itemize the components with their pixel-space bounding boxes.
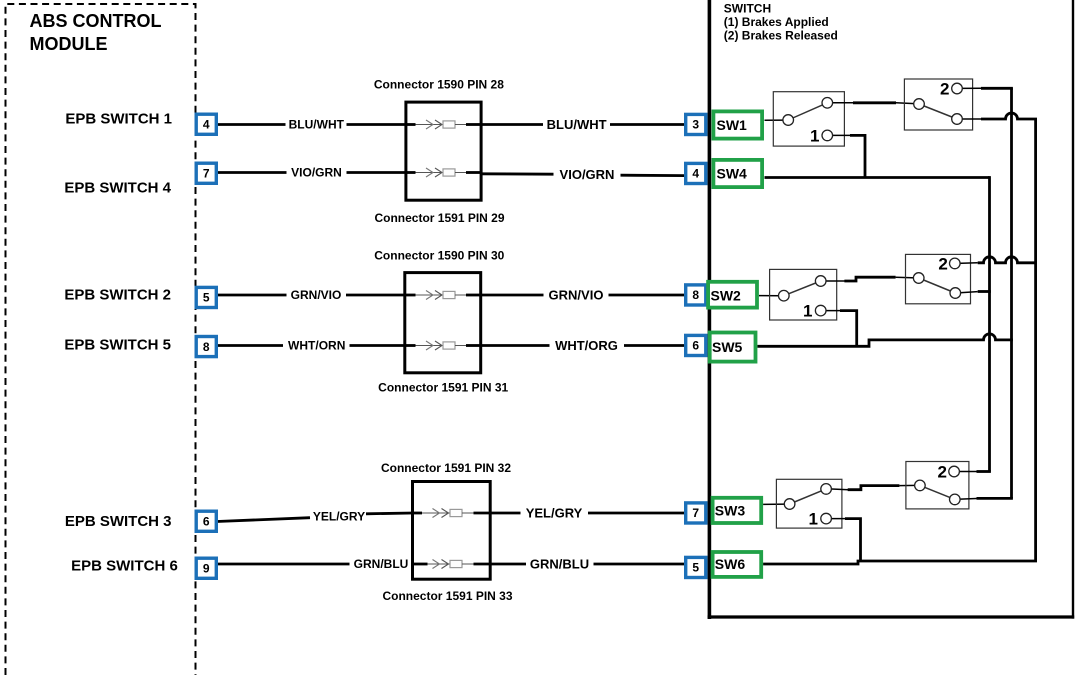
- pin 7 (ABS): [196, 163, 216, 183]
- pin 5 (SW6): [686, 557, 706, 577]
- wire S3b contact 2 to bus A: [957, 471, 991, 473]
- label EPB SWITCH 1: [65, 111, 172, 128]
- ABS CONTROL MODULE title: [30, 11, 162, 54]
- svg-text:Connector 1591 PIN 33: Connector 1591 PIN 33: [382, 589, 512, 603]
- svg-text:4: 4: [203, 118, 210, 132]
- wire label GRN/BLU (left): [354, 557, 409, 571]
- svg-text:SW6: SW6: [715, 556, 746, 572]
- ABS control module dashed box: [6, 4, 196, 675]
- label 1 (brakes applied contact): [809, 510, 818, 529]
- label EPB SWITCH 5: [64, 336, 171, 353]
- pin 5 (ABS): [196, 287, 216, 307]
- switch S3a blade: [790, 489, 827, 504]
- svg-text:YEL/GRY: YEL/GRY: [526, 506, 583, 521]
- label 1 (brakes applied contact): [803, 302, 812, 321]
- wire S2a top contact to S2b common (jog): [824, 277, 917, 281]
- svg-text:BLU/WHT: BLU/WHT: [289, 118, 345, 132]
- wire S1a contact 1 down to SW4 net: [830, 135, 865, 177]
- svg-text:MODULE: MODULE: [30, 34, 108, 54]
- inline splice symbol row 6: [413, 560, 491, 569]
- switch S2a terminal circles: [779, 276, 827, 316]
- wire label to connector 1590: [347, 123, 408, 126]
- svg-text:SW4: SW4: [717, 165, 748, 181]
- wire pin7 to label VIO/GRN: [217, 171, 287, 174]
- label EPB SWITCH 4: [64, 180, 171, 197]
- label Connector 1591 PIN 32: [381, 461, 511, 475]
- label Connector 1591 PIN 31: [378, 380, 508, 394]
- svg-text:1: 1: [810, 126, 819, 145]
- inline splice symbol row 3: [405, 291, 480, 300]
- switch SW6: [713, 552, 762, 577]
- wire label to switch pin 4: [621, 174, 686, 177]
- wire pin8 to label WHT/ORN: [217, 344, 283, 347]
- pin 4 (SW4): [686, 163, 706, 183]
- svg-text:2: 2: [940, 80, 949, 99]
- switch S2b terminal circles: [913, 258, 960, 298]
- switch S1b box: [904, 79, 972, 130]
- label 1 (brakes applied contact): [810, 126, 819, 145]
- switch S3b box: [906, 462, 969, 509]
- svg-text:ABS CONTROL: ABS CONTROL: [30, 11, 162, 31]
- svg-text:SWITCH: SWITCH: [724, 2, 771, 16]
- wire label BLU/WHT (left): [289, 118, 345, 132]
- wire S1b contact 2 to bus B: [960, 87, 1013, 89]
- svg-text:7: 7: [203, 167, 210, 181]
- svg-text:SW2: SW2: [711, 287, 742, 303]
- wire pin5 to label GRN/VIO: [217, 294, 287, 297]
- svg-text:YEL/GRY: YEL/GRY: [313, 510, 365, 524]
- bus B vertical (from S1b contact 2): [1010, 88, 1013, 498]
- switch S3a box: [776, 479, 842, 528]
- inline splice symbol row 4: [405, 341, 480, 350]
- svg-text:(2) Brakes Released: (2) Brakes Released: [724, 29, 838, 43]
- wire S3b lower contact to bus B: [957, 497, 1013, 500]
- switch assembly box (bottom border): [708, 615, 1075, 618]
- svg-text:EPB SWITCH 4: EPB SWITCH 4: [64, 180, 171, 197]
- svg-text:GRN/BLU: GRN/BLU: [530, 557, 589, 572]
- inline splice symbol row 5: [413, 509, 491, 518]
- wire pin9 to label GRN/BLU: [217, 563, 350, 566]
- switch SW5: [710, 333, 756, 362]
- connector box 1590/1591 (rows 1-2): [406, 102, 481, 200]
- svg-text:6: 6: [692, 339, 699, 353]
- wire pin4 to label BLU/WHT: [217, 123, 286, 126]
- pin 8 (SW2): [686, 285, 706, 305]
- svg-text:WHT/ORN: WHT/ORN: [288, 339, 345, 353]
- wire label WHT/ORN (left): [288, 339, 345, 353]
- switch S1b blade: [919, 104, 957, 119]
- label Connector 1591 PIN 29: [374, 211, 504, 225]
- label EPB SWITCH 6: [71, 558, 178, 575]
- svg-text:EPB SWITCH 3: EPB SWITCH 3: [65, 513, 172, 530]
- svg-text:5: 5: [692, 561, 699, 575]
- svg-text:1: 1: [809, 510, 818, 529]
- wire connector to label WHT/ORG right: [479, 344, 550, 347]
- wire S3a contact 1 down to SW6 net: [829, 519, 861, 561]
- pin 7 (SW3): [686, 503, 706, 523]
- wire connector to label BLU/WHT right: [480, 123, 543, 126]
- wire label to connector 1590 pin 30: [346, 294, 406, 297]
- svg-text:9: 9: [203, 562, 210, 576]
- svg-text:VIO/GRN: VIO/GRN: [560, 167, 615, 182]
- svg-text:SW5: SW5: [712, 339, 743, 355]
- wire label to switch pin 7: [588, 512, 686, 515]
- wire SW5 to bus B (jog, hop over bus A): [757, 334, 1013, 346]
- label 2 (brakes released contact): [938, 254, 947, 273]
- svg-text:Connector 1591 PIN 32: Connector 1591 PIN 32: [381, 461, 511, 475]
- switch S2a blade: [784, 281, 821, 296]
- svg-text:1: 1: [803, 302, 812, 321]
- svg-text:Connector 1590 PIN 30: Connector 1590 PIN 30: [374, 248, 504, 262]
- label 2 (brakes released contact): [940, 80, 949, 99]
- label Connector 1591 PIN 33: [382, 589, 512, 603]
- wire connector to label VIO/GRN right: [480, 172, 554, 175]
- label 2 (brakes released contact): [938, 463, 947, 482]
- switch SW1: [713, 111, 762, 138]
- wire label GRN/BLU (right): [530, 557, 589, 572]
- wire label WHT/ORG (right): [555, 338, 618, 353]
- wire S2b contact 2 to bus C (hops over bus A and bus B): [957, 257, 1037, 264]
- wire S1a top contact to S1b common: [830, 103, 917, 104]
- svg-text:2: 2: [938, 254, 947, 273]
- switch S1a blade: [788, 103, 827, 120]
- svg-text:BLU/WHT: BLU/WHT: [547, 117, 607, 132]
- switch S2b box: [906, 254, 971, 303]
- pin 3 (SW1): [686, 114, 706, 134]
- wire S1b lower contact to bus C (hop over bus B): [960, 113, 1038, 119]
- switch S1a box: [773, 92, 844, 146]
- svg-text:4: 4: [692, 167, 699, 181]
- wire S2a contact 1 down to SW5 net: [824, 311, 857, 347]
- wire label VIO/GRN (left): [291, 166, 342, 180]
- wire label to switch pin 3: [610, 123, 686, 126]
- label EPB SWITCH 2: [64, 287, 171, 304]
- switch SW2: [708, 282, 757, 308]
- wire label to switch pin 6: [624, 344, 686, 347]
- svg-text:(1) Brakes Applied: (1) Brakes Applied: [724, 15, 829, 29]
- switch assembly box (left border): [708, 0, 712, 619]
- connector box 1591 (rows 5-6): [413, 482, 491, 580]
- wire label GRN/VIO (left): [291, 288, 342, 302]
- svg-text:GRN/VIO: GRN/VIO: [549, 288, 604, 303]
- wire label to connector 1591: [347, 171, 408, 174]
- svg-text:6: 6: [203, 515, 210, 529]
- wire S2b lower contact to bus A: [958, 292, 991, 293]
- wire label to switch pin 8: [609, 294, 686, 297]
- svg-text:Connector 1590 PIN 28: Connector 1590 PIN 28: [374, 78, 504, 92]
- wire label to connector 1591 pin 31: [350, 344, 407, 347]
- svg-text:EPB SWITCH 5: EPB SWITCH 5: [64, 336, 171, 353]
- svg-text:3: 3: [692, 118, 699, 132]
- pin 6 (SW5): [686, 335, 706, 355]
- switch SW3: [713, 498, 762, 523]
- bus C vertical (from S1b lower contact): [1034, 119, 1037, 561]
- SWITCH legend text: [724, 2, 838, 43]
- svg-text:VIO/GRN: VIO/GRN: [291, 166, 342, 180]
- wire SW6 to bus C (jog): [763, 561, 1037, 564]
- connector box 1590/1591 (rows 3-4): [405, 273, 481, 373]
- wire connector to label GRN/VIO right: [479, 294, 544, 297]
- wire label to switch pin 5: [594, 563, 686, 566]
- svg-text:EPB SWITCH 6: EPB SWITCH 6: [71, 558, 178, 575]
- wire label to connector 1591 pin 32 (sloped): [366, 512, 413, 516]
- wire pin6 to label YEL/GRY (sloped): [217, 518, 310, 522]
- switch S3b terminal circles: [915, 466, 960, 505]
- switch S2a box: [770, 269, 837, 320]
- wire SW4 to bus A: [765, 176, 990, 179]
- svg-text:8: 8: [203, 340, 210, 354]
- switch SW4: [713, 160, 762, 187]
- switch S3a terminal circles: [784, 484, 831, 524]
- wire connector to label GRN/BLU right: [490, 563, 527, 566]
- svg-text:Connector 1591 PIN 31: Connector 1591 PIN 31: [378, 380, 508, 394]
- svg-text:WHT/ORG: WHT/ORG: [555, 338, 618, 353]
- pin 8 (ABS): [196, 337, 216, 357]
- svg-text:5: 5: [203, 291, 210, 305]
- switch assembly box (right border): [1072, 0, 1074, 619]
- svg-text:7: 7: [692, 506, 699, 520]
- wire SW1 to switch common: [765, 119, 787, 121]
- switch S2b blade: [919, 278, 956, 293]
- wire connector to label YEL/GRY right: [490, 512, 521, 515]
- pin 6 (ABS): [196, 511, 216, 531]
- switch S3b blade: [920, 485, 955, 499]
- svg-text:SW1: SW1: [717, 117, 748, 133]
- wire S3a top contact to S3b common (jog): [829, 485, 917, 489]
- inline splice symbol row 2: [406, 168, 481, 177]
- switch S1b terminal circles: [914, 83, 963, 124]
- label Connector 1590 PIN 30: [374, 248, 504, 262]
- pin 9 (ABS): [196, 558, 216, 578]
- wire label BLU/WHT (right): [547, 117, 607, 132]
- wire SW2 to switch common: [759, 295, 781, 297]
- switch S1a terminal circles: [783, 98, 833, 141]
- wire label YEL/GRY (right): [526, 506, 583, 521]
- inline splice symbol row 1: [406, 120, 481, 129]
- svg-text:SW3: SW3: [715, 502, 746, 518]
- pin 4 (ABS): [196, 114, 216, 134]
- bus A vertical (SW4 net): [988, 176, 991, 471]
- label EPB SWITCH 3: [65, 513, 172, 530]
- svg-text:Connector 1591 PIN 29: Connector 1591 PIN 29: [374, 211, 504, 225]
- svg-text:GRN/VIO: GRN/VIO: [291, 288, 342, 302]
- svg-text:EPB SWITCH 1: EPB SWITCH 1: [65, 111, 172, 128]
- svg-text:EPB SWITCH 2: EPB SWITCH 2: [64, 287, 171, 304]
- svg-text:GRN/BLU: GRN/BLU: [354, 557, 409, 571]
- wire SW3 to switch common: [763, 503, 787, 505]
- wire label GRN/VIO (right): [549, 288, 604, 303]
- svg-text:8: 8: [692, 288, 699, 302]
- wire label YEL/GRY (left): [313, 510, 365, 524]
- wire label VIO/GRN (right): [560, 167, 615, 182]
- label Connector 1590 PIN 28: [374, 78, 504, 92]
- svg-text:2: 2: [938, 463, 947, 482]
